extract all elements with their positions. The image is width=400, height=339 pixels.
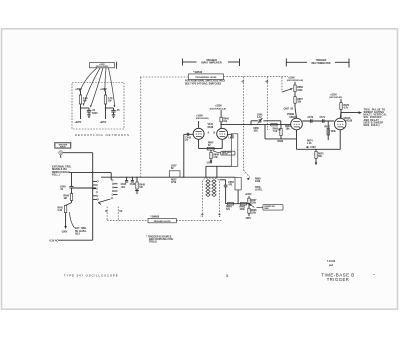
tick right of callout box (116, 62, 118, 69)
resistor R676 (340, 103, 342, 110)
svg-text:EXTERNAL TRIG.: EXTERNAL TRIG. (52, 166, 72, 169)
svg-text:1R: 1R (119, 211, 122, 213)
wire (80, 104, 82, 119)
coupling box to transformer (231, 134, 238, 167)
svg-text:100k: 100k (331, 131, 337, 133)
svg-text:6.3V AC: 6.3V AC (50, 239, 59, 242)
svg-text:LEVEL: LEVEL (255, 190, 263, 192)
resistor R641 (64, 205, 66, 212)
svg-text:C671: C671 (320, 117, 326, 119)
contact stubs right (114, 183, 118, 185)
svg-text:FOLL.): FOLL.) (52, 174, 60, 176)
svg-text:R646: R646 (223, 117, 229, 120)
wafer 4F dashed (243, 77, 245, 170)
svg-text:R674: R674 (307, 139, 313, 142)
resistor R665 (241, 203, 247, 206)
svg-text:R669: R669 (278, 141, 284, 143)
pot R660 (235, 177, 241, 190)
svg-text:R647: R647 (208, 141, 214, 144)
dashed box decoupling networks (72, 83, 124, 130)
cathode loop (296, 130, 298, 150)
cathode wires (198, 139, 200, 148)
fan arrow to +225V top (105, 68, 106, 92)
capacitor C622 (111, 109, 115, 111)
svg-text:SW640 (CATH.: SW640 (CATH. (52, 171, 68, 174)
callout PRESET ADJ box (263, 205, 283, 211)
svg-text:-150V: -150V (310, 147, 317, 149)
connector J640 (59, 151, 63, 155)
svg-text:+225V: +225V (100, 89, 107, 91)
resistor R622 (104, 95, 106, 104)
svg-text:TRIGGER: TRIGGER (327, 277, 350, 282)
capacitor C663 (220, 179, 226, 181)
wire connector to switch (63, 152, 93, 154)
resistor R645 (136, 177, 138, 182)
svg-text:.001: .001 (121, 187, 126, 189)
capacitor C642 (186, 133, 188, 136)
svg-text:3.3k: 3.3k (58, 210, 63, 212)
svg-text:TRIGGER SLOPE: TRIGGER SLOPE (153, 221, 171, 223)
node A junction (80, 107, 81, 108)
capacitor C645 (126, 177, 128, 180)
contact stubs left (93, 180, 97, 182)
resistor R675 (315, 149, 317, 151)
svg-text:3.3k: 3.3k (213, 157, 218, 159)
svg-text:C667: C667 (284, 109, 290, 111)
svg-text:R672: R672 (325, 126, 331, 128)
wire main signal (101, 176, 235, 178)
svg-text:-150V: -150V (206, 162, 213, 164)
output arrow (341, 112, 360, 114)
svg-text:V664B: V664B (287, 113, 294, 116)
tube V664A (334, 118, 346, 130)
callout SAME VALUE box (221, 151, 235, 155)
ground (87, 115, 91, 118)
svg-text:R668: R668 (264, 208, 268, 210)
box TRIGGERING LEVEL (189, 74, 224, 80)
supply arrow -150V (64, 226, 67, 229)
wire (105, 104, 107, 119)
resistor R665a (280, 129, 282, 136)
bracket TRIGGER MULTIVIBRATOR (285, 59, 287, 67)
svg-text:V664A: V664A (344, 117, 351, 120)
svg-text:1M: 1M (64, 198, 67, 200)
supply tick -150V (306, 146, 309, 148)
svg-text:+225V: +225V (100, 122, 107, 124)
svg-text:1M: 1M (139, 187, 142, 189)
svg-text:V644: V644 (208, 123, 214, 126)
wire 6.3VAC rail (58, 239, 93, 241)
svg-text:C670: C670 (308, 117, 314, 119)
svg-text:TYPE 547 OSCILLOSCOPE: TYPE 547 OSCILLOSCOPE (64, 273, 118, 277)
svg-text:+225V: +225V (215, 106, 222, 108)
terminal 5 (219, 213, 221, 215)
wire top rail to wafer (72, 172, 112, 174)
svg-text:-150V: -150V (245, 218, 252, 220)
wire C640 to wafer (72, 187, 97, 189)
wire left branch (80, 91, 82, 95)
ground (135, 191, 139, 194)
svg-text:TRIGGER: TRIGGER (206, 60, 217, 62)
svg-text:SIGNALS VIA: SIGNALS VIA (52, 168, 67, 171)
leader (257, 206, 263, 208)
resistor R646 (220, 117, 222, 122)
svg-text:4.7k: 4.7k (343, 106, 348, 109)
svg-text:6DJ8: 6DJ8 (208, 127, 214, 129)
supply -150V (210, 160, 213, 163)
svg-text:TRIGGERING LEVEL: TRIGGERING LEVEL (195, 77, 217, 79)
callout box +225V DECOUPLED (90, 63, 115, 68)
resistor R672 (327, 121, 329, 140)
fan arrow to right capacitor (109, 68, 115, 107)
svg-text:R645: R645 (139, 183, 145, 186)
leader (213, 151, 221, 153)
resistor R666 (294, 85, 296, 92)
svg-text:R641: R641 (58, 206, 64, 209)
svg-text:C645: C645 (121, 183, 127, 186)
dashed linkage vertical left (140, 77, 142, 179)
wafer linkage dashed 1F (106, 207, 108, 221)
wire from box bottom to transformer (206, 165, 231, 167)
secondary winding (212, 180, 216, 197)
resistor R648 (210, 152, 212, 158)
fan arrow to left capacitor (91, 68, 104, 107)
svg-text:4.7k: 4.7k (108, 97, 113, 100)
svg-text:(DECOUPLED A,B): (DECOUPLED A,B) (210, 107, 226, 110)
pot wiper jog (66, 203, 72, 206)
grid return branch (264, 125, 266, 139)
box TRIGGER SLOPE (148, 218, 176, 222)
wire to capacitor C620 (81, 107, 90, 109)
wire cathode drop (210, 150, 212, 152)
resistor R668 (248, 208, 250, 213)
svg-text:ADJ.: ADJ. (75, 232, 81, 235)
svg-text:4R: 4R (265, 81, 268, 84)
wire bias rail (226, 203, 249, 205)
resistor R647 (207, 147, 214, 150)
svg-text:MULTIVIBRATOR: MULTIVIBRATOR (312, 62, 331, 65)
svg-text:C620: C620 (92, 113, 98, 115)
capacitor C640 (69, 185, 73, 187)
svg-text:(DECOUPLED): (DECOUPLED) (330, 97, 343, 99)
svg-text:5: 5 (219, 216, 220, 218)
tube V644B triode (217, 128, 228, 139)
box TRIGGER INPUT (55, 142, 71, 148)
svg-text:SEE TYPE 547 DIAG. SWITCHES: SEE TYPE 547 DIAG. SWITCHES (185, 83, 221, 86)
wire grid riser (183, 134, 185, 177)
resistor R667 (248, 198, 250, 203)
right contacts (112, 179, 114, 181)
svg-text:R640: R640 (64, 194, 70, 197)
pot wiper dashed (281, 77, 283, 92)
svg-text:.005: .005 (253, 130, 258, 132)
svg-text:C642: C642 (185, 136, 191, 139)
svg-text:C646: C646 (130, 183, 136, 186)
capacitor C620 (87, 109, 91, 111)
peaking coil L646 (227, 134, 229, 136)
wire to capacitor C622 (106, 107, 114, 109)
wafer linkage dashed 1R (117, 207, 119, 221)
svg-text:INPUT: INPUT (60, 147, 67, 149)
svg-text:joel: joel (328, 265, 333, 267)
svg-text:R648: R648 (213, 153, 219, 156)
transformer T640 shield can dashed (202, 178, 219, 217)
wire plate supply (220, 110, 222, 117)
wire plate to grid (signal) (221, 124, 291, 126)
node B junction (105, 107, 106, 108)
ground (112, 115, 116, 118)
resistor R667a (294, 97, 296, 104)
svg-text:C640: C640 (60, 185, 66, 188)
wire pot bottom (237, 190, 239, 204)
rotor arm (98, 199, 110, 203)
svg-text:AND COUPLING CON-: AND COUPLING CON- (149, 238, 174, 241)
svg-text:100k: 100k (297, 90, 303, 92)
supply arrow -150V (315, 162, 318, 165)
dashed slope linkage (107, 219, 148, 221)
wire down to wafer (92, 153, 94, 241)
leader curve (70, 212, 75, 228)
wire left plate (198, 121, 200, 128)
svg-text:1.2k: 1.2k (307, 143, 312, 145)
resistor R620 (79, 95, 81, 104)
resistor R664 (228, 203, 234, 206)
tube V664B (291, 118, 303, 130)
svg-text:+350V: +350V (75, 89, 82, 91)
capacitor C671 (322, 119, 324, 123)
tube V644A triode (193, 128, 204, 139)
svg-text:-150V: -150V (61, 231, 68, 233)
junction plate/output (220, 124, 221, 125)
svg-text:120k: 120k (251, 213, 257, 215)
terminal 1 (201, 213, 203, 215)
bracket TRIGGER INPUT AMPLIFIER (182, 59, 184, 66)
svg-text:1M: 1M (278, 130, 281, 132)
svg-text:100k: 100k (240, 209, 246, 211)
svg-text:INPUT AMPLIFIER: INPUT AMPLIFIER (201, 62, 221, 65)
dashed linkage horizontal (140, 76, 189, 78)
svg-text:470k: 470k (171, 181, 177, 184)
svg-text:(DECOUPLED): (DECOUPLED) (96, 66, 109, 68)
svg-text:+225V: +225V (75, 122, 82, 124)
svg-text:7-10-66: 7-10-66 (327, 261, 336, 263)
dashed diagonal to pot wiper (244, 170, 250, 177)
wiper arrow preset (249, 204, 254, 208)
svg-text:C2: C2 (232, 136, 234, 138)
fan arrow to +350V top (80, 68, 97, 92)
svg-text:(DECOUPLED): (DECOUPLED) (196, 118, 209, 120)
svg-text:100k: 100k (255, 181, 261, 183)
svg-text:(DECOUPLED A,B): (DECOUPLED A,B) (287, 79, 303, 82)
svg-text:GEN. DIAG.): GEN. DIAG.) (364, 124, 380, 127)
coupling wire between tubes (302, 120, 334, 122)
svg-text:TROLS.: TROLS. (149, 242, 158, 244)
svg-text:R664: R664 (226, 206, 232, 209)
svg-text:+225V: +225V (330, 94, 337, 96)
wire right branch (105, 91, 107, 95)
resistor R661 inline (271, 124, 278, 126)
fan arrow to left node (83, 68, 100, 106)
trimmer capacitor C661 (258, 119, 260, 123)
primary winding (206, 180, 210, 197)
svg-text:3-12: 3-12 (257, 117, 262, 119)
capacitor C646 (131, 177, 133, 180)
wire label arrow to divider top (68, 171, 72, 174)
svg-text:FOR ADDITIONAL SWITCH DETAILS: FOR ADDITIONAL SWITCH DETAILS (185, 80, 225, 83)
wire divider vertical (71, 173, 73, 186)
resistor R640 (70, 194, 72, 201)
svg-text:1: 1 (201, 216, 202, 218)
wafer 4R dashed (266, 77, 268, 130)
capacitor C670 (310, 119, 312, 123)
svg-text:+100V: +100V (245, 194, 252, 196)
switch wafer SW640 source: left contacts (97, 181, 99, 183)
svg-text:DECOUPLING NETWORKS: DECOUPLING NETWORKS (75, 133, 130, 137)
trimmer branch (250, 121, 252, 125)
svg-text:TRIGGER: TRIGGER (316, 60, 327, 62)
